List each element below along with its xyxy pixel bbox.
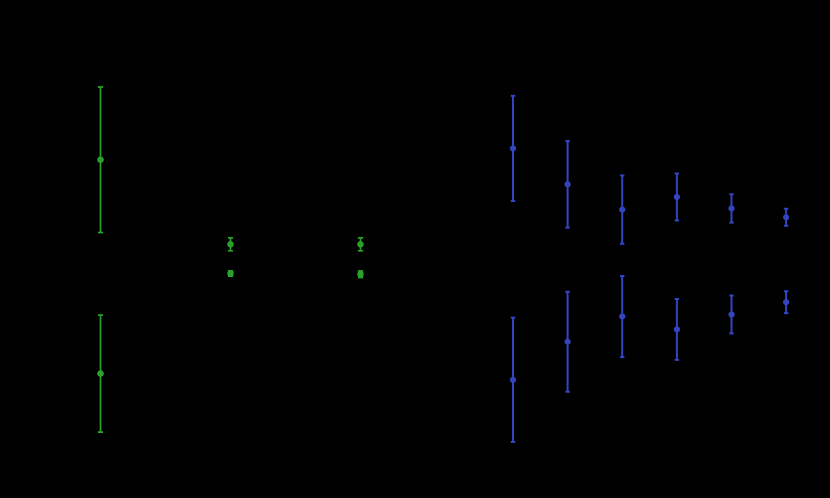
blue point 3 lower errorbar bbox=[619, 276, 625, 357]
blue point 4 upper errorbar bbox=[674, 174, 680, 221]
green point 2 upper errorbar bbox=[227, 238, 234, 251]
green point 2 lower errorbar bbox=[227, 270, 234, 277]
green point 1 lower errorbar bbox=[97, 315, 104, 432]
blue point 2 upper errorbar bbox=[565, 141, 571, 228]
green point 3 lower errorbar bbox=[357, 271, 364, 278]
blue point 3 upper errorbar bbox=[619, 176, 625, 244]
blue point 4 lower errorbar bbox=[674, 299, 680, 360]
left panel: green errorbar series bbox=[97, 87, 364, 432]
blue point 1 lower errorbar bbox=[510, 318, 516, 442]
right panel: blue errorbar series bbox=[510, 96, 789, 442]
blue point 1 upper errorbar bbox=[510, 96, 516, 201]
green point 1 upper errorbar bbox=[97, 87, 104, 233]
blue point 6 upper errorbar bbox=[783, 209, 789, 226]
green point 3 upper errorbar bbox=[357, 238, 364, 251]
blue point 6 lower errorbar bbox=[783, 291, 789, 313]
blue point 2 lower errorbar bbox=[565, 292, 571, 392]
blue point 5 upper errorbar bbox=[728, 194, 734, 222]
blue point 5 lower errorbar bbox=[728, 296, 734, 334]
